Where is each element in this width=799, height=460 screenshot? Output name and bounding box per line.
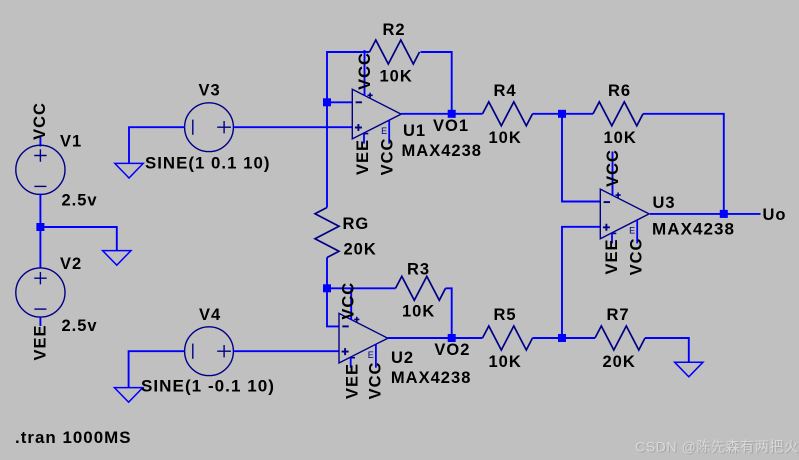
svg-text:VCC: VCC <box>366 362 384 400</box>
svg-text:.tran 1000MS: .tran 1000MS <box>15 429 132 447</box>
svg-text:10K: 10K <box>489 353 522 371</box>
wire V2 bottom stub <box>39 317 41 326</box>
wire R2 right lead to VO1 <box>421 52 452 114</box>
wire VO2 to R5 <box>452 337 483 339</box>
svg-text:RG: RG <box>343 215 370 233</box>
voltage source V3 <box>185 103 234 152</box>
svg-text:R7: R7 <box>607 306 630 324</box>
wire VO1 to R4 <box>452 113 483 115</box>
resistor R5 <box>483 326 533 350</box>
svg-text:VCC: VCC <box>628 238 646 276</box>
svg-text:V2: V2 <box>60 255 82 273</box>
resistor R4 <box>483 102 533 126</box>
svg-text:VEE: VEE <box>343 363 361 399</box>
wire junction to ground <box>40 227 116 251</box>
svg-text:SINE(1 0.1 10): SINE(1 0.1 10) <box>145 155 271 173</box>
wire U1 output to VO1 <box>401 113 452 115</box>
svg-text:10K: 10K <box>604 129 637 147</box>
svg-text:2.5v: 2.5v <box>62 192 98 210</box>
wire junction to U1 inverting input <box>327 101 352 103</box>
svg-text:MAX4238: MAX4238 <box>391 369 472 387</box>
ground (V4) <box>114 388 142 403</box>
svg-text:R6: R6 <box>608 82 631 100</box>
svg-text:SINE(1 -0.1 10): SINE(1 -0.1 10) <box>141 378 275 396</box>
svg-text:V4: V4 <box>199 306 221 324</box>
svg-text:U2: U2 <box>391 349 414 367</box>
svg-text:Uo: Uo <box>763 206 787 224</box>
svg-text:MAX4238: MAX4238 <box>402 142 483 160</box>
wire RG bottom lead <box>326 258 328 289</box>
wire R6 right feedback to output node <box>643 114 724 214</box>
resistor R3 <box>396 276 446 300</box>
svg-text:R4: R4 <box>494 82 517 100</box>
svg-text:VO2: VO2 <box>434 341 470 359</box>
wire U3 output to Uo <box>650 213 761 215</box>
wire V4 left to ground <box>129 351 185 388</box>
voltage source V1 <box>16 145 65 194</box>
wire U2 V+ supply stub <box>350 288 352 320</box>
svg-text:CSDN @陈先森有两把火: CSDN @陈先森有两把火 <box>635 439 799 455</box>
svg-text:VEE: VEE <box>32 324 50 360</box>
node junction RG/R3/U2 <box>323 284 331 292</box>
svg-text:R2: R2 <box>383 21 406 39</box>
svg-text:10K: 10K <box>402 303 435 321</box>
node junction R4/R6/U3- <box>558 110 566 118</box>
wire U3 V+ supply stub <box>612 152 614 196</box>
op-amp U1 <box>352 89 401 143</box>
svg-text:U1: U1 <box>403 122 426 140</box>
svg-text:10K: 10K <box>380 68 413 86</box>
node junction Uo <box>720 210 728 218</box>
node junction V1/V2/gnd <box>36 223 44 231</box>
node junction VO2 <box>448 334 456 342</box>
node junction R5/R7/U3+ <box>558 334 566 342</box>
wire RG top lead <box>326 102 328 207</box>
wire R2 left lead <box>327 52 370 102</box>
wire node to U2 inverting input <box>327 288 339 326</box>
op-amp U3 <box>600 189 649 243</box>
svg-text:VEE: VEE <box>354 139 372 175</box>
wire V3 to U1 noninverting input <box>234 126 353 128</box>
svg-text:10K: 10K <box>489 129 522 147</box>
svg-text:U3: U3 <box>653 194 676 212</box>
wire R4 to R6 node <box>533 113 594 115</box>
wire R5 to R7 node <box>533 337 596 339</box>
wire V4 to U2 noninverting input <box>233 350 339 352</box>
resistor R2 <box>370 40 420 64</box>
svg-text:MAX4238: MAX4238 <box>652 221 735 239</box>
wire U2 output to VO2 <box>388 337 452 339</box>
ground (V3) <box>115 163 143 178</box>
wire R3 right lead to VO2 <box>446 288 452 338</box>
ground (R7) <box>675 362 703 377</box>
resistor RG <box>315 208 339 258</box>
wire V1 top stub <box>39 137 41 147</box>
wire U1 V+ supply stub <box>364 50 366 96</box>
node junction VO1 <box>448 110 456 118</box>
ground (V1/V2 midpoint) <box>103 251 131 266</box>
resistor R7 <box>595 326 645 350</box>
wire V1 bottom to V2 top <box>39 194 41 269</box>
svg-text:2.5v: 2.5v <box>62 317 98 335</box>
svg-text:VCC: VCC <box>356 52 374 90</box>
svg-text:VCC: VCC <box>339 282 357 320</box>
wire U3 noninverting input down to R5/R7 node <box>562 227 600 338</box>
svg-text:V3: V3 <box>199 82 221 100</box>
svg-text:V1: V1 <box>60 133 82 151</box>
op-amp U2 <box>339 313 388 367</box>
svg-text:VEE: VEE <box>603 238 621 274</box>
svg-text:VCC: VCC <box>604 149 622 187</box>
svg-text:VCC: VCC <box>379 138 397 176</box>
svg-text:VO1: VO1 <box>433 117 469 135</box>
wire R7 right to ground <box>645 338 689 362</box>
voltage source V2 <box>16 268 65 317</box>
wire V3 left to ground <box>129 127 185 163</box>
wire node to U3 inverting input <box>562 114 600 202</box>
svg-text:R5: R5 <box>494 306 517 324</box>
node junction U1 inverting input <box>323 98 331 106</box>
wire node to R3 <box>327 287 396 289</box>
svg-text:VCC: VCC <box>31 102 49 140</box>
voltage source V4 <box>185 327 234 376</box>
resistor R6 <box>593 102 643 126</box>
svg-text:20K: 20K <box>344 241 377 259</box>
svg-text:20K: 20K <box>603 353 636 371</box>
